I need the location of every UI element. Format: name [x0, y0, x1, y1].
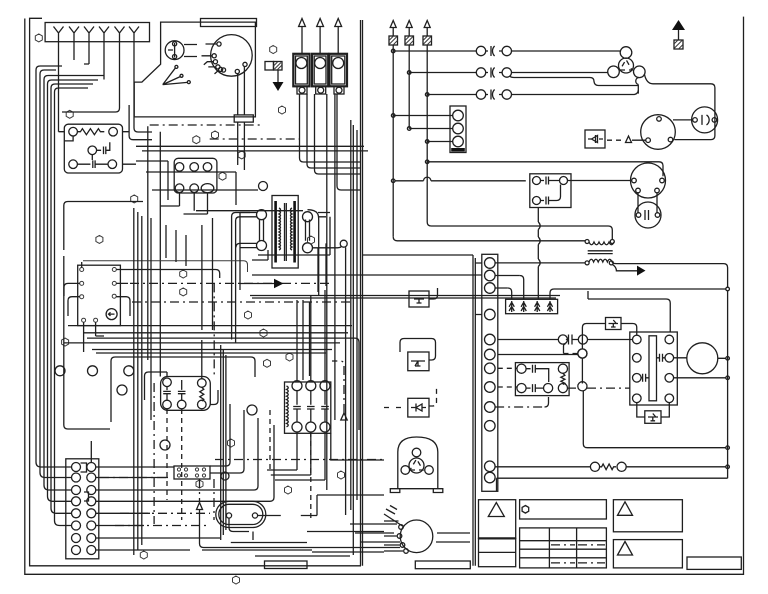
indoor fan motor 2 [631, 163, 666, 198]
pressure switch oval [216, 501, 266, 527]
indicator cell pair [265, 62, 274, 71]
sequencer top switch box [606, 318, 622, 330]
breaker plug 3 [330, 54, 348, 87]
long cross wires upper-middle [129, 105, 368, 377]
24v loop to right rail [612, 262, 727, 287]
title block: part number box [687, 557, 741, 569]
condenser fan motor [641, 115, 676, 150]
T2 secondary left lead to strip [495, 262, 585, 264]
left coil winding [287, 386, 289, 427]
wires from 6-pin connector down [160, 193, 208, 215]
24v rail left portion [554, 288, 726, 290]
low voltage terminal strip [66, 459, 99, 559]
fan relay box [515, 363, 569, 396]
flame sensor box C [408, 398, 429, 417]
title block: revision triangle box [479, 500, 516, 539]
3-column HSI module [285, 382, 331, 433]
rail 3 with contact [427, 90, 638, 100]
black down arrow [273, 82, 284, 91]
pressure switch box A [409, 291, 429, 307]
heat rail to right [674, 377, 726, 379]
rail 1 with contactor contact [393, 46, 620, 56]
title block: note box B [613, 540, 682, 568]
dashed drop from strip 407 [495, 397, 548, 407]
contactor coil box [530, 174, 571, 208]
timer dial circle [211, 35, 253, 77]
board lead wires [59, 132, 137, 165]
right side bundle [351, 120, 357, 555]
transformer T2 [585, 240, 589, 244]
relay board lead hooks [64, 262, 220, 352]
thermostat wires down [59, 42, 153, 132]
terminal Y symbols [54, 27, 140, 42]
L3 riser to compressor [636, 78, 639, 94]
breaker plug 1 [293, 54, 309, 87]
bundle top bends [36, 66, 104, 92]
label plate left [265, 561, 308, 569]
dial down wires [238, 67, 245, 115]
dash-dot thermostat runs [130, 125, 352, 524]
relay to sensor circle [581, 358, 583, 383]
lower rounded jumper [111, 357, 255, 422]
fan rail with contact [498, 335, 578, 345]
breaker wires down [300, 94, 361, 490]
left panel right edge (double line) [361, 20, 363, 566]
left panel outline [30, 18, 361, 566]
dial leader wires [202, 44, 219, 74]
lower horizontal runs [96, 404, 274, 550]
control relay board [78, 265, 121, 325]
plug strip top right [450, 106, 466, 153]
control box polygon [134, 22, 255, 117]
relay top feed [588, 291, 670, 332]
fuse L2 [405, 36, 414, 45]
title block: left column rows [479, 538, 516, 566]
heat relay / sequencer block [630, 332, 678, 405]
dashed leads below aux box [167, 409, 182, 520]
compressor motor [620, 47, 632, 59]
misc crossing verticals upper [166, 122, 310, 380]
rectifier box [506, 299, 558, 313]
connector plate on control box bottom [234, 115, 253, 122]
inner enclosure wire [64, 202, 143, 430]
breaker arrows up [299, 19, 342, 54]
rectifier feed wires [508, 276, 554, 300]
wires to blower box [307, 433, 384, 552]
molex connector [174, 466, 210, 479]
circuit board module [64, 124, 122, 173]
inducer motor [398, 437, 438, 489]
dashed vertical mid [270, 410, 311, 520]
upper long runs right [168, 161, 330, 292]
fuse L3 [423, 36, 432, 45]
dash-dot lower runs [100, 460, 384, 526]
horizontal bus group mid [64, 326, 355, 353]
wire box bottom to transformer [537, 208, 539, 300]
compressor run wire [645, 75, 715, 140]
relay bottom switch [645, 411, 661, 424]
T2 secondary right to arrow [613, 265, 638, 271]
transformer lead pairs [196, 210, 346, 515]
dashed rails into relay [498, 368, 517, 387]
resistor rail [495, 466, 725, 468]
fan motor cap [635, 202, 661, 228]
long rail y275 to strip [252, 274, 482, 276]
relay drop loop [583, 391, 725, 448]
igniter symbol [165, 41, 184, 60]
thermostat terminal strip [45, 23, 149, 42]
left panel to right panel link wires [355, 338, 359, 430]
eac feed arrow [240, 283, 274, 285]
bottom rail [497, 478, 728, 491]
ladder pin strip [482, 254, 498, 491]
T2 primary left lead [393, 237, 585, 241]
transformer T1 [272, 196, 298, 269]
rail to transformer primary right [427, 222, 612, 239]
strip left stubs [495, 276, 520, 289]
vertical resistor leads [145, 340, 219, 405]
label plate right [415, 561, 470, 569]
aux component box (pressure/cap module) [161, 377, 211, 411]
title block: header box with hex [520, 500, 607, 519]
title block: schedule table [520, 528, 607, 568]
L2 return stub [510, 76, 639, 86]
rail 2 with contact [409, 68, 608, 78]
long thin wire y260 [83, 261, 248, 272]
blower extension box [363, 255, 476, 566]
bottom distribution wires [202, 495, 470, 556]
dashed link to door switch [564, 353, 579, 355]
mid column verticals [134, 208, 226, 555]
limit switch box B [408, 352, 429, 371]
condenser sensor box [585, 130, 605, 148]
run capacitor [692, 107, 718, 133]
title block: note box A [613, 500, 682, 532]
standoff hexagons [35, 34, 344, 584]
sensor triangle [197, 503, 401, 548]
screw holes [55, 366, 65, 376]
bus band y295-298 [250, 296, 560, 299]
taps to plug strip [393, 116, 453, 142]
spark spray leads [163, 68, 188, 85]
strip link rail y354 [498, 354, 578, 356]
flame triangle on dash-dot [341, 413, 347, 420]
fuse L1 [389, 36, 398, 45]
blower motor M [687, 343, 718, 374]
power disconnect arrow [672, 20, 685, 30]
blower motor [400, 520, 433, 553]
6-pin connector [174, 158, 217, 193]
left vertical wire bundle [36, 70, 91, 526]
top bar rect [201, 19, 257, 27]
supply verticals [393, 51, 427, 237]
breaker plug 2 [312, 54, 328, 87]
HSI module wires [267, 290, 325, 480]
